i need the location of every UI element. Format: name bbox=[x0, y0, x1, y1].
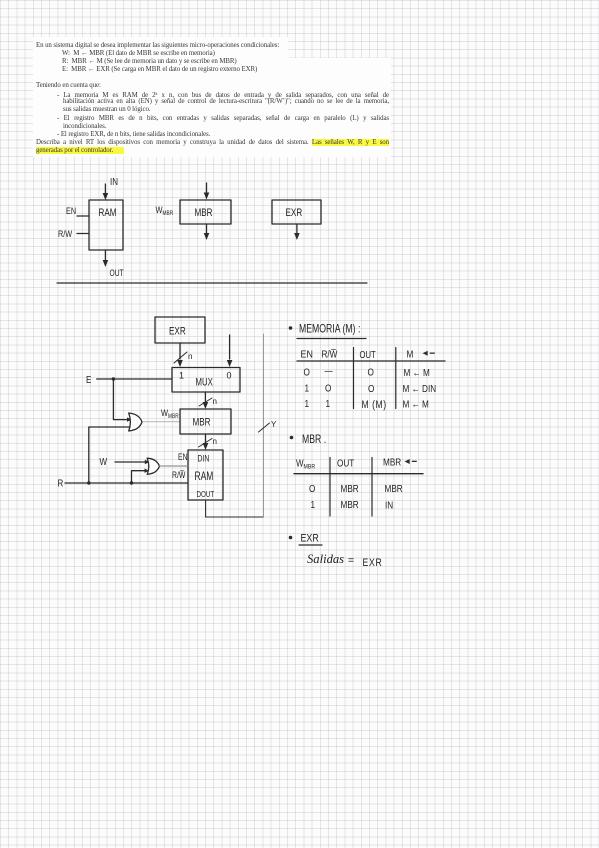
table M header rule bbox=[297, 360, 445, 362]
svg-text:R: R bbox=[58, 478, 64, 489]
table M vertical divider 2 bbox=[395, 348, 397, 409]
svg-text:n: n bbox=[188, 352, 192, 361]
svg-text:=: = bbox=[348, 555, 354, 567]
wire R branch up to OR1 bbox=[89, 427, 130, 483]
white paper patch behind printed header lines bbox=[33, 37, 288, 58]
svg-text:MBR .: MBR . bbox=[302, 434, 326, 446]
svg-text:—: — bbox=[325, 364, 334, 376]
bullet MBR bbox=[290, 436, 294, 440]
wire MUX output to MBR bbox=[203, 392, 209, 409]
svg-text:1: 1 bbox=[311, 498, 316, 510]
bus slash n (EXR-MUX) bbox=[174, 352, 187, 363]
divider rule bbox=[57, 282, 367, 284]
svg-text:OUT: OUT bbox=[110, 268, 124, 278]
svg-text:MBR: MBR bbox=[385, 482, 403, 494]
wire IN arrow into RAM symbol bbox=[103, 184, 109, 200]
wire R branch up to OR2 bbox=[132, 471, 145, 483]
or-gate OR2 (EN = W + R) bbox=[147, 458, 159, 474]
svg-text:MBR: MBR bbox=[341, 498, 359, 510]
white paper patch behind printed body bbox=[33, 58, 391, 157]
memory RAM bbox=[188, 450, 223, 500]
svg-text:E: E bbox=[86, 374, 91, 385]
svg-text:IN: IN bbox=[110, 176, 118, 187]
svg-text:MEMORIA (M) :: MEMORIA (M) : bbox=[299, 323, 360, 335]
svg-text:WMBR: WMBR bbox=[296, 458, 315, 471]
register MBR bbox=[180, 409, 231, 434]
svg-text:MBR: MBR bbox=[383, 455, 401, 467]
svg-text:M (M): M (M) bbox=[362, 399, 387, 411]
svg-text:OUT: OUT bbox=[360, 349, 376, 360]
wire W to OR2 bbox=[115, 461, 145, 463]
wire EXR to MUX input 1 bbox=[177, 343, 183, 367]
wire arrow out of EXR symbol bbox=[294, 224, 300, 240]
svg-text:DOUT: DOUT bbox=[197, 489, 215, 499]
svg-text:IN: IN bbox=[385, 498, 393, 510]
svg-text:RAM: RAM bbox=[99, 207, 117, 220]
svg-text:EN: EN bbox=[301, 349, 313, 361]
bullet EXR bbox=[289, 536, 293, 540]
svg-text:EXR: EXR bbox=[301, 533, 319, 545]
svg-text:MBR: MBR bbox=[341, 482, 359, 494]
svg-text:n: n bbox=[213, 437, 217, 446]
mux MUX bbox=[172, 368, 240, 393]
svg-text:MUX: MUX bbox=[196, 375, 214, 388]
register EXR bbox=[155, 317, 205, 343]
junction E bbox=[112, 377, 115, 380]
bullet MEMORIA bbox=[289, 326, 293, 330]
wire arrow into MBR symbol bbox=[204, 183, 210, 200]
bus slash n (MBR-RAM) bbox=[199, 439, 213, 448]
svg-text:1: 1 bbox=[305, 381, 310, 393]
svg-text:Salidas: Salidas bbox=[307, 552, 344, 566]
wire R line to RAM R/W bbox=[65, 482, 188, 484]
wire OR2 output to RAM EN bbox=[159, 465, 188, 467]
svg-text:EXR: EXR bbox=[169, 325, 186, 338]
svg-text:R/W: R/W bbox=[58, 228, 72, 239]
svg-text:O: O bbox=[368, 382, 374, 394]
svg-text:1: 1 bbox=[305, 397, 310, 409]
svg-text:O: O bbox=[325, 381, 331, 393]
register RAM symbol box bbox=[89, 200, 123, 250]
svg-text:O: O bbox=[309, 482, 315, 494]
svg-text:RAM: RAM bbox=[195, 471, 214, 484]
svg-text:1: 1 bbox=[179, 371, 184, 381]
svg-text:EN: EN bbox=[66, 205, 76, 216]
wire E branch down to OR1 bbox=[113, 379, 127, 420]
register MBR symbol box bbox=[180, 200, 231, 224]
svg-text:M ← M: M ← M bbox=[403, 397, 430, 409]
svg-text:Y: Y bbox=[271, 420, 277, 429]
wire RAM DOUT feedback loop bbox=[206, 500, 264, 517]
register EXR symbol box bbox=[272, 200, 321, 224]
wire OUT arrow from RAM symbol bbox=[103, 250, 109, 267]
svg-text:O: O bbox=[368, 365, 374, 377]
wire R/W stub bbox=[77, 233, 89, 235]
svg-text:MBR: MBR bbox=[195, 207, 213, 220]
svg-text:M ← DIN: M ← DIN bbox=[403, 382, 437, 394]
underline MEMORIA title bbox=[297, 338, 366, 340]
table M vertical divider 1 bbox=[353, 348, 355, 409]
svg-text:O: O bbox=[304, 365, 310, 377]
svg-text:EXR: EXR bbox=[363, 557, 383, 569]
wire E to MUX select bbox=[97, 378, 172, 380]
table MBR header rule bbox=[294, 473, 423, 475]
svg-text:n: n bbox=[213, 397, 217, 406]
bus slash n (MUX-MBR) bbox=[199, 398, 212, 406]
svg-text:W: W bbox=[100, 456, 108, 467]
svg-text:OUT: OUT bbox=[337, 456, 354, 468]
svg-text:M ← M: M ← M bbox=[404, 366, 431, 378]
wire EN stub bbox=[77, 215, 89, 217]
wire feedback arrow into MUX input 0 bbox=[227, 335, 233, 367]
table MBR vertical divider 2 bbox=[371, 458, 373, 517]
table MBR vertical divider 1 bbox=[329, 458, 331, 517]
svg-text:R/W̅: R/W̅ bbox=[322, 347, 338, 359]
wire MBR output to RAM DIN bbox=[203, 434, 209, 450]
svg-text:M: M bbox=[407, 347, 414, 359]
svg-text:0: 0 bbox=[227, 371, 232, 381]
svg-text:WMBR: WMBR bbox=[161, 407, 179, 420]
svg-text:EN: EN bbox=[178, 452, 188, 462]
junction R-OR1 bbox=[87, 481, 90, 484]
svg-text:1: 1 bbox=[326, 397, 331, 409]
or-gate OR1 (W_MBR = E + R) bbox=[129, 413, 142, 431]
junction R-OR2 bbox=[130, 481, 133, 484]
bus slash Y bbox=[259, 423, 270, 432]
svg-text:WMBR: WMBR bbox=[156, 204, 174, 217]
svg-text:DIN: DIN bbox=[198, 454, 210, 464]
svg-text:EXR: EXR bbox=[286, 207, 303, 220]
printed problem statement bbox=[36, 42, 279, 49]
wire arrow out of MBR symbol bbox=[204, 224, 210, 240]
underline EXR bbox=[299, 544, 322, 546]
wire OR1 output to MBR load bbox=[143, 421, 180, 423]
svg-text:MBR: MBR bbox=[193, 416, 211, 429]
svg-text:R/W̅: R/W̅ bbox=[172, 470, 186, 480]
